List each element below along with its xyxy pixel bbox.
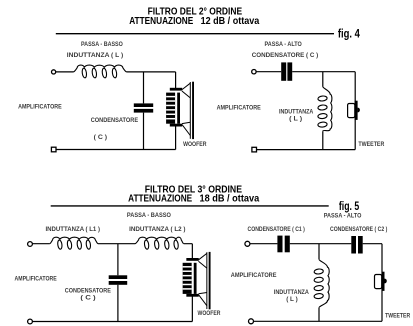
svg-text:AMPLIFICATORE: AMPLIFICATORE — [217, 104, 262, 111]
svg-text:CONDENSATORE ( C ): CONDENSATORE ( C ) — [252, 52, 318, 59]
svg-text:TWEETER: TWEETER — [358, 141, 384, 148]
svg-text:ATTENUAZIONE: ATTENUAZIONE — [128, 194, 192, 205]
svg-text:AMPLIFICATORE: AMPLIFICATORE — [15, 275, 58, 282]
svg-text:12 dB / ottava: 12 dB / ottava — [201, 16, 260, 27]
svg-text:INDUTTANZA ( L2 ): INDUTTANZA ( L2 ) — [129, 226, 185, 233]
svg-text:CONDENSATORE: CONDENSATORE — [91, 117, 139, 124]
svg-text:( C ): ( C ) — [80, 294, 95, 301]
svg-text:PASSA - ALTO: PASSA - ALTO — [265, 41, 302, 48]
svg-text:fig. 5: fig. 5 — [339, 199, 360, 213]
svg-text:INDUTTANZA: INDUTTANZA — [274, 289, 309, 296]
svg-text:CONDENSATORE ( C2 ): CONDENSATORE ( C2 ) — [330, 226, 387, 233]
svg-text:PASSA - BASSO: PASSA - BASSO — [127, 212, 171, 219]
svg-text:( L ): ( L ) — [289, 115, 302, 122]
svg-text:PASSA - ALTO: PASSA - ALTO — [324, 213, 362, 220]
svg-text:TWEETER: TWEETER — [385, 312, 410, 319]
svg-text:( C ): ( C ) — [94, 134, 108, 141]
svg-text:AMPLIFICATORE: AMPLIFICATORE — [231, 272, 277, 279]
svg-text:AMPLIFICATORE: AMPLIFICATORE — [18, 104, 62, 111]
svg-text:CONDENSATORE ( C1 ): CONDENSATORE ( C1 ) — [248, 226, 305, 233]
svg-text:PASSA - BASSO: PASSA - BASSO — [81, 41, 123, 48]
svg-text:WOOFER: WOOFER — [198, 310, 221, 317]
svg-text:ATTENUAZIONE: ATTENUAZIONE — [129, 16, 193, 27]
svg-text:fig. 4: fig. 4 — [338, 27, 360, 41]
svg-text:18 dB / ottava: 18 dB / ottava — [200, 194, 260, 205]
svg-text:INDUTTANZA ( L ): INDUTTANZA ( L ) — [67, 52, 123, 59]
svg-text:INDUTTANZA ( L1 ): INDUTTANZA ( L1 ) — [46, 226, 101, 233]
svg-text:WOOFER: WOOFER — [183, 141, 207, 148]
svg-text:( L ): ( L ) — [286, 296, 298, 303]
